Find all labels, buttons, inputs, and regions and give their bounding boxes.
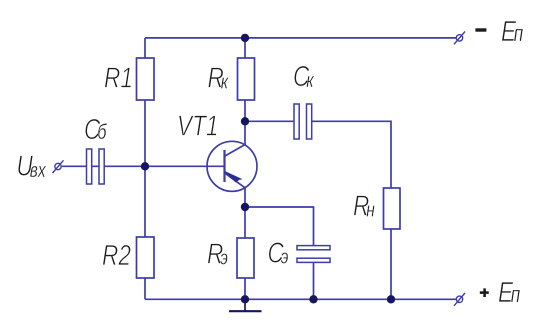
svg-text:R2: R2: [102, 238, 131, 271]
svg-text:VT1: VT1: [177, 109, 218, 142]
svg-text:R1: R1: [104, 61, 133, 94]
